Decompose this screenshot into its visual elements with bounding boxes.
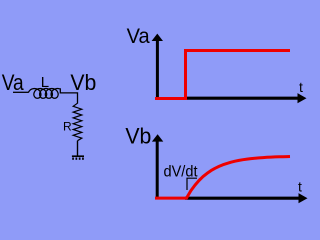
svg-text:R: R [63, 120, 72, 134]
top graph horizontal axis [184, 97, 298, 100]
inductor L1 coil [28, 89, 60, 99]
top graph vertical axis [156, 40, 159, 99]
top graph horizontal axis arrowhead [298, 93, 307, 103]
bottom graph vertical axis arrowhead [152, 134, 163, 141]
svg-text:Va: Va [2, 70, 25, 95]
ground symbol [72, 156, 84, 160]
svg-text:t: t [298, 179, 302, 195]
resistor R zigzag [73, 103, 82, 141]
top graph vertical axis arrowhead [152, 34, 163, 41]
bottom graph vertical axis [156, 141, 159, 199]
bottom graph horizontal axis arrowhead [299, 193, 308, 203]
svg-text:L: L [41, 74, 49, 91]
red exponential waveform (Vb) [155, 157, 290, 199]
svg-text:Vb: Vb [70, 70, 96, 95]
svg-text:Va: Va [127, 24, 150, 48]
wire from Va to inductor [13, 91, 29, 93]
red step waveform (Va) [155, 51, 290, 99]
svg-text:t: t [299, 79, 303, 95]
slope corner mark [187, 178, 197, 190]
wire resistor to ground [77, 141, 79, 156]
svg-text:Vb: Vb [125, 124, 151, 149]
bottom graph horizontal axis [185, 197, 299, 200]
wire from inductor to Vb node and down [60, 89, 78, 104]
